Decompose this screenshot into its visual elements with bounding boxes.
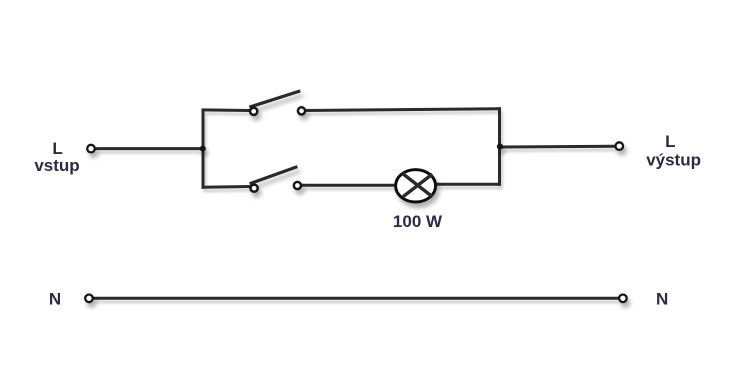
switch S2 right contact (294, 182, 301, 189)
switch S1 left contact (250, 108, 257, 115)
switch S2 (bottom branch, open) blade (250, 167, 298, 184)
switch S1 (top branch, open) blade (249, 91, 300, 107)
wire: bottom branch middle segment (switch to lamp) (302, 184, 397, 187)
svg-text:N: N (656, 290, 668, 309)
switch S1 right contact (298, 107, 305, 114)
node: left junction dot (200, 146, 206, 152)
wire: bottom branch left segment (202, 185, 251, 189)
switch S2 left contact (251, 185, 258, 192)
wire: N conductor (93, 297, 619, 300)
terminal: L output (616, 142, 624, 150)
lamp E1 cross stroke 2 (403, 174, 432, 197)
wire: bottom branch right segment (lamp to bus) (436, 183, 501, 186)
lamp E1 cross stroke 1 (403, 174, 433, 197)
wire: top branch left segment (202, 108, 251, 112)
terminal: L input (87, 145, 95, 153)
wire: top branch right segment (306, 109, 501, 111)
svg-text:výstup: výstup (646, 151, 701, 170)
node: right junction dot (497, 144, 503, 150)
svg-text:vstup: vstup (34, 156, 79, 175)
svg-text:100 W: 100 W (393, 212, 443, 231)
svg-text:L: L (665, 132, 675, 151)
wire: L input from terminal to left junction (95, 147, 203, 150)
wire: left vertical bus (202, 109, 205, 189)
wire: right vertical bus (498, 107, 501, 186)
svg-text:N: N (49, 290, 61, 309)
terminal: N left (85, 295, 93, 303)
wire: L output from right junction to terminal (502, 145, 615, 149)
lamp E1 (100 W) body (396, 170, 436, 202)
terminal: N right (619, 295, 627, 303)
